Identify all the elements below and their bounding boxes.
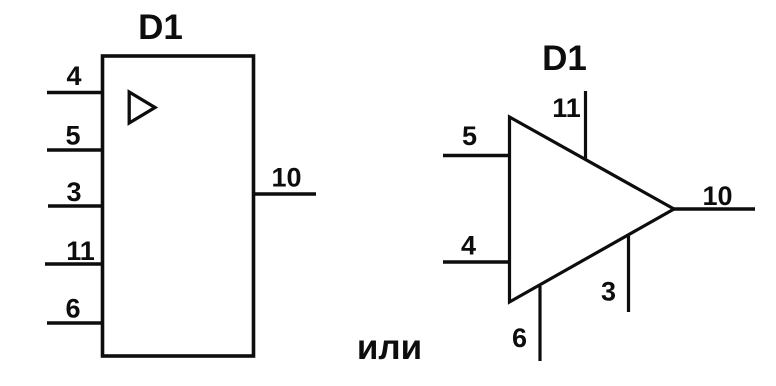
IC D1 triangular buffer symbol body (right) — [510, 117, 675, 302]
pin 10 output wire (left symbol) — [252, 192, 316, 196]
svg-text:3: 3 — [66, 177, 81, 207]
svg-text:D1: D1 — [138, 8, 183, 47]
pin 5 wire (left symbol) — [47, 148, 104, 152]
pin 3 wire (left symbol) — [48, 204, 104, 208]
pin 4 wire (right symbol) — [443, 260, 511, 264]
amplifier function symbol (small triangle inside D1 rectangle) — [129, 92, 155, 123]
svg-text:или: или — [357, 328, 422, 367]
svg-text:6: 6 — [512, 323, 527, 353]
IC U=D1 rectangular symbol body (left) — [103, 56, 254, 356]
svg-text:5: 5 — [462, 121, 477, 151]
svg-text:D1: D1 — [542, 39, 587, 78]
svg-text:6: 6 — [65, 294, 80, 324]
pin 3 wire (right symbol, bottom edge) — [627, 236, 630, 312]
pin 11 wire (right symbol, top edge) — [584, 91, 587, 159]
svg-text:5: 5 — [65, 121, 80, 151]
pin 10 output wire (right symbol) — [671, 207, 755, 211]
pin 4 wire (left symbol) — [47, 91, 104, 95]
pin 6 wire (left symbol) — [47, 321, 104, 325]
pin 11 wire (left symbol) — [45, 262, 104, 266]
svg-text:10: 10 — [271, 163, 301, 193]
svg-text:10: 10 — [702, 181, 732, 211]
svg-text:11: 11 — [552, 93, 581, 123]
pin 5 wire (right symbol) — [443, 154, 511, 158]
pin 6 wire (right symbol, bottom edge) — [538, 286, 541, 361]
svg-text:11: 11 — [66, 236, 95, 266]
svg-text:4: 4 — [461, 231, 476, 261]
svg-text:4: 4 — [66, 61, 81, 91]
svg-text:3: 3 — [601, 277, 616, 307]
